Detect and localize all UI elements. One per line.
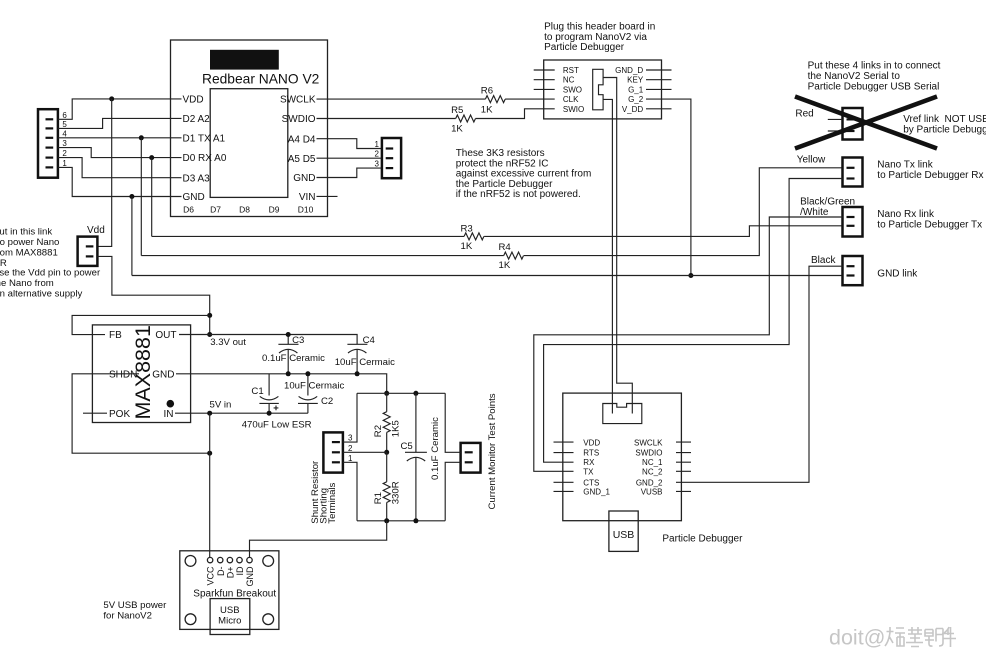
wire shunt top rail (357, 392, 445, 394)
svg-text:D10: D10 (298, 204, 314, 214)
svg-text:Nano Rx link: Nano Rx link (877, 209, 935, 220)
wire J6 bottom pin (445, 462, 460, 521)
capacitor C4 (347, 344, 367, 374)
node GND/R2 junction (384, 391, 389, 396)
svg-text:Vref link NOT USED: Vref link NOT USED (903, 114, 986, 125)
svg-text:Nano Tx link: Nano Tx link (877, 159, 933, 170)
wire OUT 3.3V rail (179, 335, 357, 345)
J3 right stub leads GND_D KEY G_1 V_DD (646, 70, 672, 109)
wire R4 to Nano Tx link (524, 168, 843, 256)
J3 right pin labels (615, 66, 644, 114)
svg-text:CLK: CLK (563, 95, 579, 104)
svg-text:SWDIO: SWDIO (282, 114, 316, 125)
USB Micro box (210, 599, 250, 635)
svg-text:C4: C4 (363, 335, 376, 346)
svg-text:Particle Debugger: Particle Debugger (544, 42, 625, 53)
svg-text:doit@: doit@ (829, 626, 886, 650)
svg-text:to Particle Debugger Tx: to Particle Debugger Tx (877, 220, 982, 231)
svg-text:Terminals: Terminals (327, 482, 338, 523)
svg-text:0.1uF Ceramic: 0.1uF Ceramic (262, 353, 325, 364)
Redbear NANO V2 inner box (210, 89, 288, 198)
wire J1.4 to D1 TX A1 (58, 137, 182, 139)
U3 pin-1 marker dot (167, 400, 175, 408)
svg-text:C2: C2 (321, 396, 333, 407)
svg-text:an alternative supply: an alternative supply (0, 289, 83, 300)
wire IN 5V rail (175, 412, 308, 414)
LK3 pin bars (847, 216, 855, 227)
wire J5.1 to bottom rail (343, 462, 357, 521)
svg-text:D1 TX A1: D1 TX A1 (183, 133, 226, 144)
svg-text:Particle Debugger USB Serial: Particle Debugger USB Serial (808, 81, 940, 92)
J4 pin numbers (375, 140, 380, 169)
node VDD junction (109, 96, 114, 101)
J1 pin bars (46, 118, 54, 168)
svg-text:from MAX8881: from MAX8881 (0, 248, 58, 259)
connector LK1 Vref link (843, 108, 863, 140)
J5 pin numbers (348, 434, 353, 463)
svg-text:3.3V out: 3.3V out (210, 337, 246, 348)
svg-text:ID: ID (235, 566, 245, 576)
svg-text:1K5: 1K5 (390, 420, 401, 437)
capacitor C5 (405, 393, 427, 521)
watermark CJK glyph mock 2 (906, 627, 923, 647)
connector J6 test points (461, 443, 481, 473)
svg-text:USB: USB (220, 605, 240, 616)
Sparkfun pin pads VCC D- D+ ID GND (207, 557, 252, 562)
svg-text:G_2: G_2 (628, 95, 644, 104)
svg-text:2: 2 (348, 444, 353, 453)
wire SHDN to IN net (72, 374, 210, 453)
header J3 box (544, 60, 662, 119)
LK2 pin bars (847, 167, 855, 180)
board Sparkfun breakout box (180, 551, 279, 630)
resistor R4 (504, 252, 524, 259)
wire SWDIO to R5 (317, 118, 456, 120)
note text put in this link (clipped at left) (0, 226, 101, 299)
connector J4 3-pin (382, 138, 401, 178)
svg-text:C1: C1 (251, 386, 263, 397)
svg-text:D8: D8 (239, 204, 250, 214)
svg-text:GND_1: GND_1 (583, 487, 610, 496)
wire J1.3 to D0 RX A0 (58, 148, 182, 158)
node C3 top (286, 332, 291, 337)
svg-text:by Particle Debugger: by Particle Debugger (903, 125, 986, 136)
wire R3 to Nano Rx link (484, 226, 842, 237)
wire POK stub (83, 412, 107, 414)
node C3 bottom (286, 371, 291, 376)
J3 left stub leads RST NC SWO (534, 70, 555, 89)
svg-text:G_1: G_1 (628, 85, 644, 94)
svg-text:OUT: OUT (155, 330, 176, 341)
wire G_2 to GND line (646, 99, 691, 275)
U4 SWD connector with key notch (603, 404, 642, 424)
svg-text:VDD: VDD (183, 95, 204, 106)
svg-text:POK: POK (109, 409, 130, 420)
module U2 Redbear NANO V2 outer box (171, 40, 328, 217)
wire VDD down to Vdd connector pin1 (97, 99, 111, 247)
svg-text:2: 2 (62, 149, 67, 158)
wire SWCLK to CLK (317, 98, 486, 100)
J5 pin bars (332, 441, 340, 463)
node R2/R1 junction (384, 450, 389, 455)
svg-text:D6: D6 (183, 204, 194, 214)
wire GND net to Sparkfun GND (250, 521, 387, 557)
node C5 bottom (413, 518, 418, 523)
svg-text:R5: R5 (451, 105, 463, 116)
node G_2/GND junction (688, 273, 693, 278)
svg-text:D7: D7 (210, 204, 221, 214)
wire J1.5 to D2 A2 (58, 118, 182, 128)
wire A4 D4 to J4.1 (317, 139, 382, 149)
module U4 Particle Debugger box (563, 393, 682, 521)
svg-text:Current Monitor Test Points: Current Monitor Test Points (487, 393, 498, 509)
J4 pin bars (386, 147, 394, 169)
wire D0 RX drop to R3 line (151, 158, 153, 237)
svg-text:5V in: 5V in (210, 400, 232, 411)
watermark CJK glyph mock 3 (925, 629, 943, 647)
node D1 TX junction (139, 135, 144, 140)
connector J1 6-pin (38, 109, 58, 178)
svg-text:SWCLK: SWCLK (280, 95, 316, 106)
capacitor C1 (259, 374, 278, 413)
svg-text:1K: 1K (451, 123, 463, 134)
svg-text:GND: GND (152, 369, 174, 380)
Redbear NANO V2 black bar (210, 50, 279, 70)
node C5 top (413, 391, 418, 396)
svg-text:SWO: SWO (563, 85, 582, 94)
svg-text:RST: RST (563, 66, 579, 75)
svg-text:330R: 330R (390, 481, 401, 504)
wire IN net down to Sparkfun VCC (209, 413, 211, 557)
watermark CJK glyph mock 1 (885, 627, 905, 646)
svg-text:/White: /White (800, 207, 829, 218)
svg-text:C3: C3 (292, 335, 304, 346)
wire SWD key upper to debugger (603, 78, 632, 414)
wire J1.2 to D3 A3 (58, 158, 182, 178)
svg-text:R2: R2 (373, 425, 384, 437)
svg-text:5V USB power: 5V USB power (103, 600, 167, 611)
svg-text:3: 3 (348, 434, 353, 443)
svg-text:4: 4 (62, 129, 67, 138)
node GND junction (129, 194, 134, 199)
svg-text:Particle Debugger: Particle Debugger (662, 533, 743, 544)
svg-text:5: 5 (62, 120, 67, 129)
svg-text:1K: 1K (499, 260, 511, 271)
svg-text:Redbear NANO V2: Redbear NANO V2 (202, 72, 319, 87)
wire J1.6 to VDD (58, 99, 182, 119)
node C4 bottom (355, 371, 360, 376)
svg-text:NC: NC (563, 76, 575, 85)
svg-text:VCC: VCC (206, 566, 216, 586)
wire GND drop (131, 197, 133, 276)
svg-text:the Nano from: the Nano from (0, 278, 54, 289)
wire debugger GND_2 to GND link (676, 266, 843, 482)
svg-text:RX: RX (583, 458, 595, 467)
svg-text:1: 1 (375, 140, 380, 149)
svg-text:TX: TX (583, 467, 594, 476)
svg-text:the NanoV2 Serial to: the NanoV2 Serial to (808, 71, 901, 82)
resistor R5 (456, 115, 476, 122)
J3 key polarity symbol (593, 69, 603, 110)
svg-text:to power Nano: to power Nano (0, 237, 59, 248)
svg-text:Put in this link: Put in this link (0, 226, 52, 237)
svg-text:0.1uF Ceramic: 0.1uF Ceramic (430, 417, 441, 480)
J1 pin numbers 6..1 (62, 111, 67, 168)
svg-text:1: 1 (62, 159, 67, 168)
watermark CJK glyph mock 4 (942, 627, 956, 647)
wire FB to 3.3V node (72, 315, 210, 334)
svg-text:GND_2: GND_2 (636, 478, 663, 487)
svg-text:V_DD: V_DD (622, 105, 644, 114)
svg-text:C5: C5 (401, 441, 413, 452)
capacitor C2 (298, 374, 318, 413)
node 3.3V/FB junction (207, 313, 212, 318)
LK4 pin bars (847, 265, 855, 277)
svg-text:D0 RX A0: D0 RX A0 (183, 153, 227, 164)
svg-text:1: 1 (348, 454, 353, 463)
capacitor C3 (278, 335, 298, 374)
svg-text:6: 6 (62, 111, 67, 120)
J3 left pin labels (563, 66, 584, 114)
U4 left pin labels (583, 438, 610, 496)
Sparkfun corner hole bottom-right (263, 614, 274, 625)
svg-text:for NanoV2: for NanoV2 (103, 611, 152, 622)
J2 pin bars (86, 245, 94, 257)
svg-text:CTS: CTS (583, 478, 599, 487)
resistor R3 (464, 233, 484, 240)
svg-text:1K: 1K (481, 104, 493, 115)
svg-text:2: 2 (375, 150, 380, 159)
connector LK3 Nano Rx link (843, 207, 863, 237)
wire D1 TX drop to R4 line (140, 138, 142, 256)
LK1 stub leads (828, 119, 843, 131)
svg-text:if the nRF52 is not powered.: if the nRF52 is not powered. (456, 189, 581, 200)
svg-text:D2 A2: D2 A2 (183, 114, 211, 125)
node 3.3V/OUT junction (207, 332, 212, 337)
svg-text:GND: GND (183, 192, 205, 203)
svg-text:GND: GND (245, 566, 255, 587)
svg-text:NC_2: NC_2 (642, 467, 663, 476)
wire J5.2 to R1/R2 (343, 451, 387, 453)
connector LK2 Nano Tx link (843, 158, 863, 187)
svg-text:Use the Vdd pin to power: Use the Vdd pin to power (0, 268, 101, 279)
svg-text:SWCLK: SWCLK (634, 438, 663, 447)
svg-text:R3: R3 (461, 224, 473, 235)
svg-text:1K: 1K (461, 241, 473, 252)
svg-text:Vdd: Vdd (87, 225, 105, 236)
svg-text:to Particle Debugger Rx: to Particle Debugger Rx (877, 170, 983, 181)
svg-text:GND_D: GND_D (615, 66, 643, 75)
svg-text:A4 D4: A4 D4 (288, 134, 316, 145)
svg-text:SWDIO: SWDIO (635, 449, 662, 458)
wire GND line to GND link (132, 275, 843, 277)
svg-text:R6: R6 (481, 85, 493, 96)
wire J6 top pin (445, 393, 460, 452)
svg-text:IN: IN (164, 409, 174, 420)
svg-text:RTS: RTS (583, 449, 599, 458)
U4 right stub leads (676, 442, 691, 491)
Sparkfun corner hole bottom-left (185, 614, 196, 625)
svg-text:Black: Black (811, 255, 836, 266)
wire R3 line left (152, 235, 464, 237)
wire debugger RX to Nano Tx link (544, 179, 843, 463)
wire GND to J4.3 (317, 168, 382, 177)
svg-text:D9: D9 (269, 204, 280, 214)
svg-text:VUSB: VUSB (641, 487, 663, 496)
wire R6 to CLK (505, 98, 555, 100)
svg-text:470uF Low ESR: 470uF Low ESR (242, 420, 312, 431)
svg-text:Put these 4 links in to connec: Put these 4 links in to connect (808, 61, 941, 72)
wire SWD key lower to debugger (603, 99, 612, 413)
svg-text:R1: R1 (373, 492, 384, 504)
wire R4 line left (141, 255, 503, 257)
wire shunt bottom rail (357, 520, 445, 522)
connector J2 Vdd 2-pin (78, 237, 98, 266)
svg-text:D+: D+ (226, 567, 236, 579)
svg-text:SHDN: SHDN (109, 369, 137, 380)
svg-text:3: 3 (375, 160, 380, 169)
wire J5.3 to top rail (343, 393, 357, 442)
svg-text:R4: R4 (499, 242, 512, 253)
regulator U3 MAX8881 box (92, 325, 190, 423)
wire J1.1 to GND (58, 167, 182, 196)
Sparkfun corner hole top-left (185, 556, 196, 567)
svg-text:NC_1: NC_1 (642, 458, 663, 467)
U4 right pin labels (634, 438, 663, 496)
svg-text:VIN: VIN (299, 192, 316, 203)
wire GND rail (176, 374, 387, 394)
svg-text:GND link: GND link (877, 268, 918, 279)
wire R5 to SWIO (476, 109, 555, 119)
wire debugger TX to Nano Rx link (534, 217, 843, 471)
note text plug this header (544, 22, 655, 53)
node D0 RX junction (149, 155, 154, 160)
svg-text:D-: D- (216, 567, 226, 577)
U4 left stub leads (554, 442, 574, 491)
node R1 bottom (384, 518, 389, 523)
svg-text:SWIO: SWIO (563, 105, 584, 114)
svg-text:10uF Cermaic: 10uF Cermaic (284, 380, 344, 391)
svg-text:USB: USB (613, 529, 635, 541)
note text put these 4 links (808, 61, 941, 93)
LK1 pin bars (847, 118, 855, 132)
svg-text:Red: Red (795, 109, 813, 120)
node C2 top (305, 371, 310, 376)
X cross not-used mark (795, 97, 937, 149)
Sparkfun corner hole top-right (263, 556, 274, 567)
svg-text:10uF Cermaic: 10uF Cermaic (335, 357, 395, 368)
svg-text:Micro: Micro (218, 616, 241, 627)
svg-text:GND: GND (293, 173, 315, 184)
resistor R2 (383, 393, 390, 452)
wire A5 D5 to J4.2 (317, 157, 382, 159)
svg-text:A5 D5: A5 D5 (288, 154, 316, 165)
wire VIN stub (317, 195, 338, 197)
wire J2.2 to 3.3V node (97, 256, 209, 334)
svg-text:Sparkfun Breakout: Sparkfun Breakout (193, 589, 276, 600)
svg-text:Yellow: Yellow (797, 155, 826, 166)
resistor R6 (485, 96, 505, 103)
svg-text:FB: FB (109, 330, 122, 341)
svg-text:KEY: KEY (627, 76, 644, 85)
node C1 bottom (267, 411, 272, 416)
note text these 3K3 resistors (456, 148, 592, 200)
node IN/Vusb junction (207, 411, 212, 416)
J6 pin bars (465, 451, 473, 463)
resistor R1 (383, 452, 390, 521)
svg-text:D3 A3: D3 A3 (183, 173, 211, 184)
connector LK4 GND link (843, 256, 863, 285)
svg-text:3: 3 (62, 139, 67, 148)
node SHDN/VCC junction (207, 451, 212, 456)
svg-text:VDD: VDD (583, 438, 600, 447)
U4 USB box (609, 511, 638, 551)
connector J5 shunt 3-pin (323, 432, 343, 472)
